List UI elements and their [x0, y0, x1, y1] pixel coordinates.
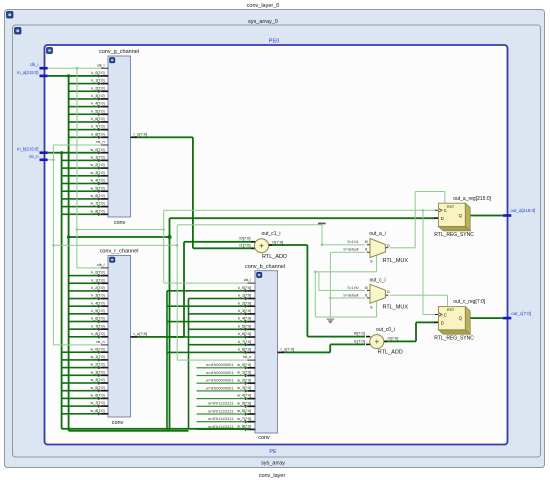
wire out_c_reg Q to out_c port [465, 317, 503, 319]
wire in_b slice to conv_r w_0 [62, 351, 101, 353]
wire mux out_a_i S pin down [376, 255, 377, 272]
wire in_b slice to conv_g w_3 [62, 175, 101, 177]
svg-text:I0: I0 [365, 240, 368, 244]
svg-text:w_5[7:0]: w_5[7:0] [91, 186, 105, 190]
svg-text:RTL_ADD: RTL_ADD [378, 349, 403, 355]
register out_c_reg[7:0] 3d bottom face [438, 330, 470, 334]
svg-text:clk_i: clk_i [97, 263, 105, 267]
wire rst_n vertical [53, 145, 54, 345]
svg-text:conv_layer: conv_layer [259, 473, 286, 479]
svg-text:RTL_ADD: RTL_ADD [262, 254, 287, 260]
svg-text:k_7[7:0]: k_7[7:0] [238, 340, 251, 344]
svg-text:k_4[7:0]: k_4[7:0] [91, 102, 104, 106]
svg-text:k_1[7:0]: k_1[7:0] [238, 294, 251, 298]
svg-text:clk_i: clk_i [97, 63, 105, 67]
svg-text:k_2[7:0]: k_2[7:0] [91, 286, 104, 290]
svg-text:I1[7:0]: I1[7:0] [354, 338, 365, 343]
wire slice to conv_b k_7 [189, 344, 248, 346]
svg-text:O: O [387, 244, 390, 248]
wire slice to conv_b k_5 [189, 329, 248, 331]
wire constant to mux out_a_i I0 [322, 224, 323, 245]
svg-text:conv: conv [112, 420, 124, 426]
svg-text:out_c_i: out_c_i [369, 277, 385, 283]
wire in_b bus from port to conv_g w_0 [48, 152, 101, 154]
conv_b_channel w_4 constant wire [197, 398, 248, 399]
conv_b_channel w_7 constant wire [197, 421, 248, 422]
out_c_reg Q pin stub [465, 317, 470, 319]
register out_c_reg[7:0] 3d right face [465, 307, 470, 335]
register out_a_reg[215:0] 3d bottom face [438, 226, 470, 230]
wire clk to out_c_reg C [423, 314, 435, 315]
junction select net upper run [314, 271, 317, 274]
wire stair top run to constant bar [177, 224, 322, 225]
svg-text:I0[7:0]: I0[7:0] [354, 331, 365, 336]
conv_b_channel w_6 constant wire [197, 413, 248, 414]
input port clk_i [40, 67, 48, 70]
register out_a_reg[215:0] 3d right face [465, 203, 470, 231]
wire adder out_c1_i O to adder out_c0_i I0 [268, 244, 307, 246]
wire mux out_a_i O to out_a_reg RST [390, 247, 416, 248]
svg-text:out_c[7:0]: out_c[7:0] [511, 311, 531, 316]
wire in_b slice to conv_r w_7 [62, 405, 101, 407]
wire clk to conv_b clk_i [164, 283, 248, 284]
wire conv_r r_o to adder [137, 336, 184, 338]
input port in_a[215:0] [40, 75, 48, 78]
svg-text:k_2[7:0]: k_2[7:0] [91, 86, 104, 90]
svg-text:k_7[7:0]: k_7[7:0] [91, 324, 104, 328]
output port out_c[7:0] [503, 317, 511, 320]
svg-text:O[7:0]: O[7:0] [272, 239, 283, 244]
svg-text:conv_b_channel: conv_b_channel [245, 264, 285, 270]
svg-text:RST: RST [447, 308, 455, 312]
svg-text:RTL_REG_SYNC: RTL_REG_SYNC [434, 336, 474, 342]
wire in_a slice to conv_g k_2 [69, 90, 101, 92]
wire bottom bus in_b slices to conv_b [62, 428, 250, 430]
svg-text:D: D [441, 320, 444, 325]
junction in_a riser [167, 235, 171, 239]
svg-text:in_a[215:0]: in_a[215:0] [17, 70, 38, 75]
svg-text:D: D [441, 216, 444, 221]
svg-text:w_6[7:0]: w_6[7:0] [91, 194, 105, 198]
wire in_b slice to conv_g w_5 [62, 190, 101, 192]
conv_b_channel w_2 constant wire [197, 383, 248, 384]
conv_b_channel w_0 constant wire [197, 367, 248, 368]
wire mid distribution vertical B [188, 299, 190, 429]
out_a_reg C pin stub [435, 209, 438, 212]
output port out_a[215:0] [503, 214, 511, 217]
svg-text:S: S [370, 260, 373, 264]
wire in_a slice to conv_r k_0 [69, 275, 101, 277]
wire clk from port to conv_g clk_i [48, 68, 101, 69]
svg-text:RTL_MUX: RTL_MUX [383, 258, 409, 264]
svg-text:k_3[7:0]: k_3[7:0] [91, 294, 104, 298]
svg-text:PE0: PE0 [269, 38, 279, 44]
wire in_b slice to conv_g w_2 [62, 167, 101, 169]
ground symbol [327, 319, 335, 324]
svg-text:k_8[7:0]: k_8[7:0] [238, 348, 251, 352]
svg-text:w_3[7:0]: w_3[7:0] [237, 386, 251, 390]
wire slice to conv_b k_1 [189, 298, 248, 300]
wire clk stair vertical [163, 210, 164, 283]
svg-text:conv_r_channel: conv_r_channel [100, 248, 139, 254]
register out_c_reg[7:0] body [438, 307, 465, 330]
svg-text:sys_array: sys_array [261, 461, 285, 467]
wire in_a slice to conv_r k_2 [69, 290, 101, 292]
svg-text:w_4[7:0]: w_4[7:0] [91, 179, 105, 183]
mux out_c_i [343, 277, 408, 310]
wire in_a slice to conv_r k_6 [69, 321, 101, 323]
junction in_a branch [67, 235, 70, 238]
svg-text:S=1'b0: S=1'b0 [347, 286, 358, 290]
wire slice to conv_b k_6 [167, 336, 248, 338]
svg-text:out_a_i: out_a_i [369, 231, 385, 237]
svg-text:k_4[7:0]: k_4[7:0] [91, 301, 104, 305]
svg-text:RST: RST [447, 205, 455, 209]
wire in_b slice to conv_r w_5 [62, 390, 101, 392]
wire in_b slice to conv_r w_4 [62, 382, 101, 384]
wire clk vertical [76, 68, 77, 268]
wire in_a slice to conv_g k_1 [69, 83, 101, 85]
junction clk stair [162, 228, 165, 231]
wire in_a slice to conv_g k_8 [69, 137, 101, 139]
svg-text:C: C [444, 208, 447, 213]
wire slice to conv_b k_4 [167, 321, 248, 323]
svg-text:k_5[7:0]: k_5[7:0] [238, 324, 251, 328]
wire in_a slice to conv_r k_8 [69, 336, 101, 338]
svg-text:w_5[7:0]: w_5[7:0] [237, 401, 251, 405]
wire in_b slice to conv_r w_3 [62, 375, 101, 377]
wire out_a_reg Q to out_a port [465, 215, 503, 217]
wire in_b distribution vertical [61, 153, 63, 429]
wire in_a slice to conv_g k_3 [69, 98, 101, 100]
svg-text:w_4[7:0]: w_4[7:0] [91, 378, 105, 382]
svg-text:PE: PE [269, 449, 277, 455]
conv_b_channel w_3 constant wire [197, 390, 248, 391]
wire in_a bus from port to conv_g k_0 [48, 75, 101, 77]
svg-text:sys_array_0: sys_array_0 [248, 19, 278, 25]
svg-text:rst_n: rst_n [96, 140, 104, 144]
wire clk to conv_r clk_i [77, 267, 101, 268]
wire rst_n to conv_g rst_n [53, 145, 100, 146]
svg-text:clk_i: clk_i [30, 62, 39, 67]
wire select net bottom run [315, 317, 376, 318]
wire rst_n from port [48, 159, 54, 160]
svg-text:w_3[7:0]: w_3[7:0] [91, 171, 105, 175]
svg-text:k_0[7:0]: k_0[7:0] [91, 71, 104, 75]
hierarchical cell conv_r_channel block body [108, 256, 131, 418]
svg-text:k_1[7:0]: k_1[7:0] [91, 79, 104, 83]
register out_c_reg[7:0] clock arrow [439, 313, 442, 316]
wire out_a_reg D input bus [170, 217, 436, 219]
junction clk vertical [76, 67, 79, 70]
wire in_b slice to conv_g w_4 [62, 183, 101, 185]
wire in_a slice to conv_r k_1 [69, 282, 101, 284]
PE0 icon [47, 48, 53, 54]
svg-text:k_8[7:0]: k_8[7:0] [91, 332, 104, 336]
mux out_c_i pin stubs [367, 289, 370, 292]
svg-text:I0[7:0]: I0[7:0] [239, 236, 250, 241]
hierarchical cell conv_g_channel block body [108, 56, 131, 217]
wire conv_b r_o to adder out_c0_i I1 [284, 352, 330, 354]
svg-text:k_6[7:0]: k_6[7:0] [91, 317, 104, 321]
svg-text:w_5[7:0]: w_5[7:0] [91, 386, 105, 390]
wire in_b slice to conv_r w_1 [62, 359, 101, 361]
junction rst_n stair [176, 244, 179, 247]
svg-text:RTL_MUX: RTL_MUX [383, 304, 409, 310]
svg-text:r_o[7:0]: r_o[7:0] [281, 347, 295, 352]
wire select net left vertical [315, 272, 316, 317]
svg-text:w_1[7:0]: w_1[7:0] [91, 355, 105, 359]
wire in_a slice to conv_g k_6 [69, 121, 101, 123]
svg-text:out_c0_i: out_c0_i [376, 327, 395, 333]
svg-text:out_c1_i: out_c1_i [262, 231, 281, 237]
svg-text:conv: conv [258, 435, 270, 441]
svg-text:O: O [387, 290, 390, 294]
svg-text:k_3[7:0]: k_3[7:0] [238, 309, 251, 313]
wire in_a slice to conv_r k_4 [69, 305, 101, 307]
svg-text:in_b[215:0]: in_b[215:0] [17, 147, 38, 152]
wire out_c_i I0 feed [318, 272, 319, 291]
svg-text:S: S [370, 306, 373, 310]
wire in_a slice to conv_g k_5 [69, 113, 101, 115]
svg-text:w_1[7:0]: w_1[7:0] [237, 371, 251, 375]
svg-text:conv_g_channel: conv_g_channel [99, 49, 139, 55]
wire in_a slice to conv_g k_7 [69, 129, 101, 131]
svg-text:w=8'b00000001: w=8'b00000001 [206, 370, 233, 375]
svg-text:w_3[7:0]: w_3[7:0] [91, 370, 105, 374]
wire clk branch east [77, 229, 164, 230]
svg-text:r_o[7:0]: r_o[7:0] [134, 132, 148, 137]
wire slice to conv_b k_8 [167, 352, 248, 354]
out_a_reg Q pin stub [465, 215, 470, 217]
svg-text:out_c_reg[7:0]: out_c_reg[7:0] [453, 299, 486, 305]
svg-text:w=8'b11111111: w=8'b11111111 [208, 401, 233, 406]
svg-text:conv: conv [114, 220, 126, 226]
conv_b_channel w_5 constant wire [197, 406, 248, 407]
conv_b_channel w_8 constant wire [197, 429, 248, 430]
junction clk branch east [76, 228, 79, 231]
svg-text:k_2[7:0]: k_2[7:0] [238, 301, 251, 305]
svg-text:w_6[7:0]: w_6[7:0] [237, 409, 251, 413]
svg-text:w_8[7:0]: w_8[7:0] [91, 409, 105, 413]
svg-text:k_6[7:0]: k_6[7:0] [91, 117, 104, 121]
wire mux out_c_i O to out_c_reg RST [390, 295, 448, 296]
wire mux out_c_i S pin down [376, 301, 377, 317]
svg-text:S=default: S=default [343, 248, 358, 252]
out_c_reg C pin stub [435, 313, 438, 316]
wire conv_g r_o to adder [137, 136, 193, 138]
wire in_a branch to out_a_reg D [69, 236, 170, 238]
wire rst_n branch east [53, 245, 177, 246]
adder out_c0_i [354, 327, 403, 355]
junction rst_n branch east [52, 244, 55, 247]
conv_b_channel w_1 constant wire [197, 375, 248, 376]
svg-text:C: C [444, 312, 447, 317]
wire in_b slice to conv_g w_7 [62, 206, 101, 208]
svg-text:w_4[7:0]: w_4[7:0] [237, 394, 251, 398]
wire in_a slice to conv_g k_4 [69, 106, 101, 108]
svg-text:w=8'b00000001: w=8'b00000001 [206, 378, 233, 383]
wire clk vertical at registers [423, 210, 424, 314]
adder out_c1_i [239, 231, 287, 260]
svg-text:k_5[7:0]: k_5[7:0] [91, 109, 104, 113]
register out_a_reg[215:0] clock arrow [439, 209, 442, 212]
sys_array_0 icon [15, 28, 22, 35]
svg-text:clk_i: clk_i [244, 278, 252, 282]
wire rst_n stair vertical [177, 225, 178, 360]
conv_layer_0 icon [7, 12, 14, 19]
register out_a_reg[215:0] body [438, 203, 465, 226]
wire bottom bus in_a slices to conv_b [69, 430, 189, 432]
junction select net to mux out_c_i I1 [329, 297, 332, 300]
svg-text:w_7[7:0]: w_7[7:0] [91, 401, 105, 405]
wire slice to conv_b k_3 [189, 313, 248, 315]
svg-text:k_8[7:0]: k_8[7:0] [91, 132, 104, 136]
svg-text:S=1'b1: S=1'b1 [347, 240, 358, 244]
constant source bar [318, 223, 326, 225]
svg-text:rst_n: rst_n [96, 340, 104, 344]
wire in_a slice to conv_r k_7 [69, 328, 101, 330]
svg-text:w_7[7:0]: w_7[7:0] [237, 417, 251, 421]
svg-text:w_7[7:0]: w_7[7:0] [91, 202, 105, 206]
wire in_b slice to conv_g w_8 [62, 214, 101, 216]
junction in_a vertical split [67, 74, 70, 77]
svg-text:k_4[7:0]: k_4[7:0] [238, 317, 251, 321]
svg-text:k_0[7:0]: k_0[7:0] [238, 286, 251, 290]
svg-text:k_5[7:0]: k_5[7:0] [91, 309, 104, 313]
svg-text:RTL_REG_SYNC: RTL_REG_SYNC [434, 232, 474, 238]
svg-text:w_1[7:0]: w_1[7:0] [91, 156, 105, 160]
wire in_b slice to conv_g w_1 [62, 160, 101, 162]
svg-text:w_6[7:0]: w_6[7:0] [91, 394, 105, 398]
mux out_a_i [343, 231, 408, 264]
svg-text:w_2[7:0]: w_2[7:0] [237, 378, 251, 382]
wire rst_n to conv_r rst_n [53, 344, 100, 345]
wire rst_n to conv_b rst_n [177, 360, 247, 361]
wire mid distribution vertical A [166, 291, 168, 431]
svg-text:rst_n: rst_n [243, 355, 251, 359]
wire select net upper run [315, 271, 376, 272]
wire in_a slice to conv_r k_5 [69, 313, 101, 315]
svg-text:r_o[7:0]: r_o[7:0] [134, 331, 148, 336]
svg-text:w_8[7:0]: w_8[7:0] [91, 209, 105, 213]
input port rst_n [40, 159, 48, 162]
wire in_a distribution vertical [68, 76, 70, 431]
svg-text:w_0[7:0]: w_0[7:0] [91, 148, 105, 152]
wire slice to conv_b k_2 [167, 305, 248, 307]
svg-text:k_7[7:0]: k_7[7:0] [91, 125, 104, 129]
svg-text:I1: I1 [365, 248, 368, 252]
svg-text:k_6[7:0]: k_6[7:0] [238, 332, 251, 336]
wire in_a slice to conv_r k_3 [69, 298, 101, 300]
wire in_b slice to conv_r w_2 [62, 367, 101, 369]
wire in_a riser vertical [169, 218, 171, 431]
junction in_b vertical split [60, 151, 63, 154]
svg-text:w_2[7:0]: w_2[7:0] [91, 363, 105, 367]
svg-text:out_a[215:0]: out_a[215:0] [510, 208, 535, 213]
junction rst_n vertical [52, 159, 55, 162]
svg-text:w=8'b00000001: w=8'b00000001 [206, 385, 233, 390]
svg-text:k_0[7:0]: k_0[7:0] [91, 271, 104, 275]
wire slice to conv_b k_0 [167, 290, 248, 292]
svg-text:w_0[7:0]: w_0[7:0] [237, 363, 251, 367]
svg-text:conv_layer_0: conv_layer_0 [247, 3, 280, 9]
svg-text:k_1[7:0]: k_1[7:0] [91, 278, 104, 282]
svg-text:w=8'b11111111: w=8'b11111111 [208, 416, 233, 421]
svg-text:O[7:0]: O[7:0] [388, 336, 399, 341]
svg-text:I1[7:0]: I1[7:0] [239, 243, 250, 248]
svg-text:S=default: S=default [343, 293, 358, 297]
hierarchical cell PE0 frame [45, 45, 508, 445]
wire clk east to register C pins [164, 210, 435, 211]
svg-text:w=8'b00000001: w=8'b00000001 [206, 362, 233, 367]
mux out_a_i pin stubs [367, 243, 370, 246]
svg-text:w_0[7:0]: w_0[7:0] [91, 347, 105, 351]
svg-text:w_2[7:0]: w_2[7:0] [91, 163, 105, 167]
wire mux select net S [330, 252, 365, 253]
input port in_b[215:0] [40, 151, 48, 154]
junction clk at registers [422, 209, 425, 212]
svg-text:I1: I1 [365, 293, 368, 297]
svg-text:out_a_reg[215:0]: out_a_reg[215:0] [453, 196, 491, 202]
hierarchical cell conv_b_channel block body [255, 271, 278, 433]
svg-text:rst_n: rst_n [29, 154, 39, 159]
wire in_b slice to conv_r w_6 [62, 398, 101, 400]
wire in_b slice to conv_r w_8 [62, 413, 101, 415]
svg-text:w=8'b11111111: w=8'b11111111 [208, 408, 233, 413]
wire adder out_c0_i O to out_c_reg D [384, 341, 416, 343]
svg-text:k_3[7:0]: k_3[7:0] [91, 94, 104, 98]
wire in_b slice to conv_g w_6 [62, 198, 101, 200]
svg-text:I0: I0 [365, 286, 368, 290]
